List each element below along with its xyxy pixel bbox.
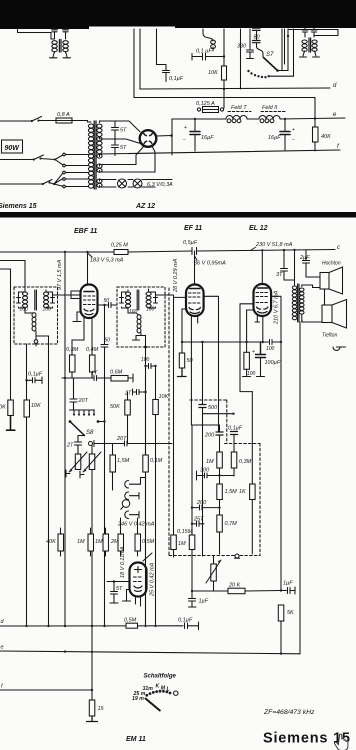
svg-text:20T: 20T (116, 436, 127, 442)
svg-text:0,5M: 0,5M (124, 618, 137, 624)
EF11 cathode pin (182, 309, 186, 353)
capacitor trimmer a2 (63, 28, 69, 40)
Feld II label box (261, 105, 285, 112)
svg-text:100: 100 (141, 357, 150, 363)
wire x=26.5 (26, 344, 28, 400)
svg-text:20 K: 20 K (228, 583, 241, 589)
wire to IFT-B (288, 30, 338, 36)
svg-text:+: + (184, 125, 187, 131)
svg-text:16µF: 16µF (268, 135, 281, 141)
wire to 40K (134, 98, 315, 128)
label 36V (194, 257, 226, 267)
svg-text:−: − (183, 137, 186, 143)
svg-text:d: d (333, 83, 337, 89)
EL12 anode pin (261, 250, 263, 284)
capacitor 160 right IFT2 (146, 292, 158, 313)
wire EF11 grid x192.5 (190, 316, 193, 535)
resistor 40K (input) (46, 528, 64, 556)
svg-text:−: − (292, 137, 295, 143)
svg-text:0,25 M: 0,25 M (111, 243, 128, 249)
svg-text:0,4M: 0,4M (86, 347, 99, 353)
resistor 0,4M (86, 347, 99, 378)
B+ rail (0, 250, 335, 253)
EBF11 anode pin (87, 252, 89, 285)
svg-text:0,8 A: 0,8 A (57, 112, 70, 118)
svg-text:Feld II: Feld II (262, 105, 278, 111)
svg-text:2µF: 2µF (299, 255, 310, 261)
capacitor 0,1uF (EL12 grid) (228, 426, 243, 453)
EM11 cathode bracket (123, 590, 131, 602)
resistor 0,3M (66, 318, 84, 378)
box 90W (2, 140, 23, 153)
wire d (140, 88, 330, 89)
transformer heater secondary (97, 179, 102, 187)
svg-text:50: 50 (104, 298, 110, 304)
section divider bar (0, 212, 356, 218)
svg-text:e: e (333, 112, 337, 118)
wire EF11 cathode chain x202.5 (202, 342, 204, 404)
speaker Hochton (302, 267, 343, 294)
wire f bottom with 15 resistor (0, 689, 92, 691)
resistor 100 (cathode) (243, 342, 256, 377)
capacitor 5T upper (112, 121, 128, 139)
resistor 1M (coupling) (206, 452, 222, 484)
svg-text:10K: 10K (208, 70, 218, 76)
ground (chassis) symbol (235, 554, 240, 558)
capacitor 1T (91, 371, 111, 381)
svg-text:K: K (156, 684, 161, 690)
capacitor 2T (mid) (124, 389, 147, 397)
power transformer core (94, 121, 96, 189)
resistor 0,15M (177, 529, 195, 591)
dial scale (132, 684, 178, 711)
svg-text:10K: 10K (31, 403, 41, 409)
capacitor 100 (IF filter) (141, 357, 156, 369)
svg-text:3T: 3T (276, 272, 283, 278)
svg-text:Tiefton: Tiefton (322, 333, 337, 339)
resistor 0,1M (143, 444, 163, 473)
dial lamp 1 (118, 179, 127, 188)
capacitor 100 (cathode bypass) (266, 340, 275, 353)
svg-text:1M: 1M (77, 539, 85, 545)
wire IFT2 to EF11 grid (149, 289, 174, 295)
svg-text:40K: 40K (321, 134, 331, 140)
svg-text:19 m: 19 m (132, 696, 144, 702)
svg-text:f: f (1, 684, 3, 690)
resistor 1,5M (EF11 plate load) (217, 484, 237, 515)
IFT1 primary coil (23, 292, 28, 308)
resistor 10K second (24, 400, 41, 626)
svg-text:Siemens 15: Siemens 15 (0, 203, 37, 210)
svg-text:300: 300 (200, 468, 210, 474)
EL12 grid line down (251, 392, 253, 484)
capacitor trimmer a1 (52, 28, 58, 40)
svg-text:50: 50 (105, 338, 111, 344)
wire f (ground return) (100, 150, 340, 154)
svg-text:0,1µF: 0,1µF (169, 76, 184, 82)
svg-text:0,5M: 0,5M (142, 539, 155, 545)
EM11 pointer line (143, 553, 152, 561)
svg-text:183 V 5,3 mA: 183 V 5,3 mA (90, 258, 124, 264)
capacitor 0,5uF in rail (183, 240, 198, 255)
svg-text:25 V 0,42 mA: 25 V 0,42 mA (150, 562, 156, 597)
transformer rectifier filament secondary (97, 164, 102, 172)
svg-text:18 V 0,11mA: 18 V 0,11mA (120, 546, 126, 578)
svg-text:230 V 51,8 mA: 230 V 51,8 mA (255, 242, 293, 248)
capacitor 20T (70, 378, 89, 410)
svg-text:e: e (1, 645, 4, 651)
wire x219 chain (192, 425, 220, 432)
svg-text:5T: 5T (120, 145, 127, 151)
potentiometer 2 (80, 445, 101, 690)
IFT1 tertiary coil (25, 308, 49, 344)
resistor 0,5M in line d (124, 618, 138, 629)
fuse 0,125A (196, 89, 224, 113)
svg-text:50: 50 (187, 358, 194, 364)
svg-text:c: c (337, 245, 340, 251)
capacitor 16uF second (268, 118, 295, 150)
capacitor 80 (253, 28, 264, 57)
svg-text:210 V 6,7 mA: 210 V 6,7 mA (274, 290, 280, 325)
svg-text:28 V 0,29 mA: 28 V 0,29 mA (173, 258, 179, 293)
resistor 10K (third) (153, 365, 169, 626)
resistor 1M (a) (77, 528, 94, 556)
HV wires to rectifier (100, 121, 141, 132)
svg-text:160: 160 (20, 307, 29, 313)
svg-text:1,5M: 1,5M (225, 489, 238, 495)
wire IFT2 tertiary down (145, 347, 147, 626)
svg-text:EBF 11: EBF 11 (74, 228, 97, 235)
transformer HV secondary (97, 124, 102, 158)
svg-text:97 V 1,5 mA: 97 V 1,5 mA (57, 259, 63, 290)
phono jack lower (125, 511, 139, 519)
wire pot wiper to 20K (192, 590, 228, 592)
dial lamp 2 (133, 179, 142, 188)
EL12 cathode pin left (247, 310, 254, 342)
capacitor trimmer b2 (311, 28, 317, 37)
svg-text:16µF: 16µF (201, 135, 214, 141)
capacitor 300 (197, 468, 235, 481)
EM11 grid wire (107, 581, 130, 583)
switch S8 (69, 410, 106, 436)
svg-text:0,1µF: 0,1µF (28, 372, 43, 378)
capacitor 160 left IFT2 (120, 292, 138, 315)
EL12 grid pin (240, 304, 254, 392)
wire at x 240.5 (240, 29, 242, 89)
svg-text:EL 12: EL 12 (249, 225, 268, 232)
line e (0, 651, 300, 654)
svg-text:ZF=468/473 kHz: ZF=468/473 kHz (263, 709, 315, 716)
wire from e corner up (299, 322, 301, 654)
resistor 20K (228, 583, 281, 594)
svg-text:0,3M: 0,3M (239, 459, 252, 465)
svg-text:330: 330 (237, 44, 247, 50)
svg-text:S8: S8 (86, 430, 94, 436)
dashed vertical x260 (259, 444, 261, 556)
svg-text:1K: 1K (239, 489, 246, 495)
wires right verticals (282, 29, 294, 76)
ground in IFT2 (133, 336, 147, 349)
svg-text:36 V 0,95mA: 36 V 0,95mA (194, 261, 226, 267)
wire x=10.5 (0, 269, 11, 400)
wire from band to IFT-A (18, 29, 55, 40)
resistor 50K (110, 392, 130, 444)
capacitor 5T (EM11) (110, 582, 123, 604)
svg-text:6,3 V/0,3A: 6,3 V/0,3A (147, 182, 173, 188)
oscillator coil (196, 29, 215, 55)
svg-text:0,15M: 0,15M (177, 529, 193, 535)
EM11 bottom pins (136, 597, 141, 607)
connector o| (89, 441, 125, 447)
wire x202.5 down (202, 414, 204, 556)
tube EF 11 (186, 285, 204, 317)
label 183V with arrow (88, 253, 124, 264)
nested wires from band (134, 29, 140, 98)
IF transformer box 2 (dashed) (117, 287, 165, 347)
svg-text:1M: 1M (178, 541, 186, 547)
IF transformer B coils (300, 38, 320, 57)
wire x=145.5 down (145, 367, 147, 626)
svg-text:2M: 2M (110, 539, 119, 545)
phono plug circle (121, 500, 130, 510)
capacitor 0,1uF oscillator (192, 54, 225, 61)
capacitor trimmer b1 (302, 28, 308, 37)
svg-text:0,3M: 0,3M (66, 347, 79, 353)
EBF11 cathode to ground (73, 312, 81, 322)
resistor 50 (EF11 cathode) (178, 353, 194, 377)
IFT2 primary coil (126, 292, 131, 308)
phono jack upper (125, 492, 139, 500)
resistor 1,5M (AVC) (110, 444, 130, 491)
AZ12 anode lead to B+ (156, 135, 171, 138)
EF11 grid pin (174, 296, 187, 298)
wire IFT1 secondary to EBF11 grid (46, 290, 81, 295)
svg-text:S7: S7 (266, 52, 274, 58)
svg-text:160: 160 (129, 309, 138, 315)
resistor 15 (87, 690, 105, 722)
svg-text:500: 500 (208, 405, 218, 411)
Feld T label box (228, 105, 251, 112)
svg-text:1T: 1T (91, 371, 98, 377)
dashed line y443 (225, 443, 261, 445)
svg-text:5T: 5T (120, 128, 127, 134)
phono jack top (125, 478, 145, 489)
tube EM 11 (130, 563, 147, 597)
resistor 0,3M (EL12 grid leak) (231, 452, 251, 476)
svg-text:200: 200 (204, 433, 215, 439)
dashed vertical x226.8 (190, 400, 227, 444)
svg-text:1M: 1M (95, 539, 103, 545)
wire bus y378 with 1T cap and 0,6M (62, 377, 93, 379)
svg-text:M: M (161, 685, 166, 691)
svg-text:0,7M: 0,7M (225, 521, 238, 527)
resistor 0,6M (110, 370, 133, 383)
svg-text:100µF: 100µF (265, 360, 281, 366)
output transformer secondary (299, 288, 304, 314)
svg-text:1µF: 1µF (283, 581, 293, 587)
output transformer primary (294, 250, 296, 285)
svg-text:d: d (1, 619, 5, 625)
svg-text:90W: 90W (5, 145, 21, 152)
resistor 1K (239, 484, 255, 554)
capacitor 160 left (17, 292, 29, 313)
svg-text:+: + (252, 349, 255, 355)
svg-text:L: L (167, 687, 170, 693)
IFT1 core (35, 290, 37, 310)
resistor 2M (110, 518, 124, 556)
dashed gang line bottom (169, 555, 260, 557)
capacitor 5T lower (112, 139, 128, 156)
capacitor 500 (199, 405, 235, 415)
capacitor 0,1uF on line d (178, 618, 199, 630)
svg-text:50K: 50K (110, 404, 120, 410)
svg-text:+: + (292, 127, 295, 133)
IF transformer input coils (50, 40, 71, 58)
capacitor 330 (237, 29, 254, 59)
svg-text:5T: 5T (116, 586, 123, 592)
capacitor 50 AVC (101, 305, 110, 626)
EBF11 diode pin down (91, 318, 93, 355)
capacitor 1uF (to ground) (189, 591, 209, 607)
capacitor 25T (191, 517, 204, 527)
EL12 right pin (271, 296, 281, 590)
speaker link wire (324, 289, 326, 305)
svg-text:160: 160 (43, 307, 52, 313)
mains switch (0, 117, 50, 123)
IFT1 secondary coil (44, 292, 49, 308)
voltage selector taps (0, 153, 83, 188)
mains selector wire (0, 159, 55, 160)
svg-text:20T: 20T (78, 398, 89, 404)
svg-text:EF 11: EF 11 (184, 225, 202, 232)
svg-text:Feld T: Feld T (231, 105, 247, 111)
svg-text:25T: 25T (193, 517, 204, 523)
svg-text:Hochton: Hochton (322, 261, 341, 267)
svg-text:10K: 10K (159, 394, 169, 400)
capacitor 20T series in 443-wire (116, 436, 172, 446)
svg-text:Schaltfolge: Schaltfolge (144, 674, 177, 680)
svg-text:160: 160 (146, 307, 155, 313)
heater winding wires and dial lamps (100, 179, 174, 188)
wire x=65 screen bus (64, 252, 66, 626)
svg-text:2T: 2T (66, 443, 74, 449)
capacitor 0,1uF top-left (157, 29, 184, 82)
rectifier tube AZ 12 (140, 130, 157, 147)
capacitor 50 series (to IFT2) (98, 298, 118, 308)
svg-text:200: 200 (196, 500, 207, 506)
fuse 0,8A (50, 112, 88, 123)
capacitor 160 right (43, 292, 55, 313)
svg-text:0,5µF: 0,5µF (183, 240, 198, 246)
IFT2 core (137, 290, 139, 310)
potentiometer 1 (66, 452, 87, 477)
svg-text:AZ 12: AZ 12 (135, 203, 155, 210)
resistor 1M (b) (95, 528, 109, 556)
svg-text:0,6M: 0,6M (110, 370, 123, 376)
IF transformer box 1 (dashed) (14, 287, 58, 344)
EF11 right pin (screen) (204, 296, 219, 431)
resistor 10K far left (0, 400, 15, 430)
svg-text:0,1M: 0,1M (150, 458, 163, 464)
tube EL 12 (254, 284, 272, 316)
line d (0, 625, 183, 627)
wire e (B+ after rectifier) with field coil chokes (172, 112, 345, 123)
capacitor 16uF first (183, 118, 214, 151)
cursor hand icon (335, 734, 348, 750)
ground in IFT1 (34, 336, 38, 346)
wire x=48.5 from IFT1 (48, 344, 50, 626)
resistor 5K (278, 605, 294, 654)
capacitor 2uF (299, 250, 320, 277)
capacitor 1uF (output) (280, 581, 295, 595)
svg-text:10K: 10K (0, 405, 6, 411)
capacitor 100uF electrolytic (252, 342, 281, 377)
wire EF11 grid line down (173, 295, 175, 535)
capacitor 3T (276, 249, 295, 280)
EL12 bottom pins (255, 316, 263, 342)
svg-text:15: 15 (98, 706, 105, 712)
svg-text:5K: 5K (287, 610, 294, 616)
EBF11 left grid bracket (71, 291, 81, 299)
svg-text:246 V 0,42 mA: 246 V 0,42 mA (117, 522, 155, 528)
external speaker jack (302, 320, 346, 351)
resistor 40K top section (313, 117, 332, 151)
IFT2 secondary coil (146, 292, 151, 308)
svg-text:1,5M: 1,5M (117, 458, 130, 464)
IFT2 tertiary coil (128, 308, 146, 347)
volume potentiometer (206, 556, 221, 592)
capacitor 2T (S8) (66, 436, 85, 455)
tube EBF 11 (81, 285, 98, 319)
svg-text:40K: 40K (46, 539, 56, 545)
junction dots line d (25, 625, 156, 628)
transformer primary winding (88, 124, 93, 188)
resistor 0,7M (217, 515, 237, 554)
resistor 0,5M (input) (135, 518, 155, 556)
svg-text:0,1µF: 0,1µF (178, 618, 193, 624)
speaker Tiefton (302, 300, 347, 329)
svg-text:EM 11: EM 11 (126, 736, 146, 743)
svg-text:1µF: 1µF (199, 599, 209, 605)
svg-text:100: 100 (247, 371, 256, 377)
svg-text:100: 100 (266, 346, 275, 352)
cathode bus wire (182, 341, 281, 343)
wire to IFT1 primary (0, 261, 25, 293)
svg-text:0,1 µF: 0,1 µF (196, 49, 212, 55)
top black band (0, 0, 356, 29)
resistor 10K (208, 29, 227, 90)
switch S7 (247, 52, 293, 78)
capacitor 200 (EF11) (204, 432, 223, 452)
svg-text:1M: 1M (206, 459, 214, 465)
IFT2 primary top feed (128, 290, 149, 292)
svg-text:80: 80 (254, 35, 261, 41)
svg-text:f: f (337, 144, 340, 150)
svg-text:0,1µF: 0,1µF (228, 426, 243, 432)
resistor 0,25M in rail (111, 243, 128, 255)
capacitor 0,1uF (left) (25, 372, 43, 384)
capacitor 200 (grid) (191, 500, 221, 510)
output transformer core (298, 284, 299, 322)
dashed gang line vertical (168, 288, 170, 556)
resistor 1M (EF11 grid) (171, 535, 186, 557)
EF11 anode pin (194, 251, 196, 285)
svg-text:2T: 2T (124, 391, 132, 397)
rectifier filament wires (100, 146, 145, 166)
